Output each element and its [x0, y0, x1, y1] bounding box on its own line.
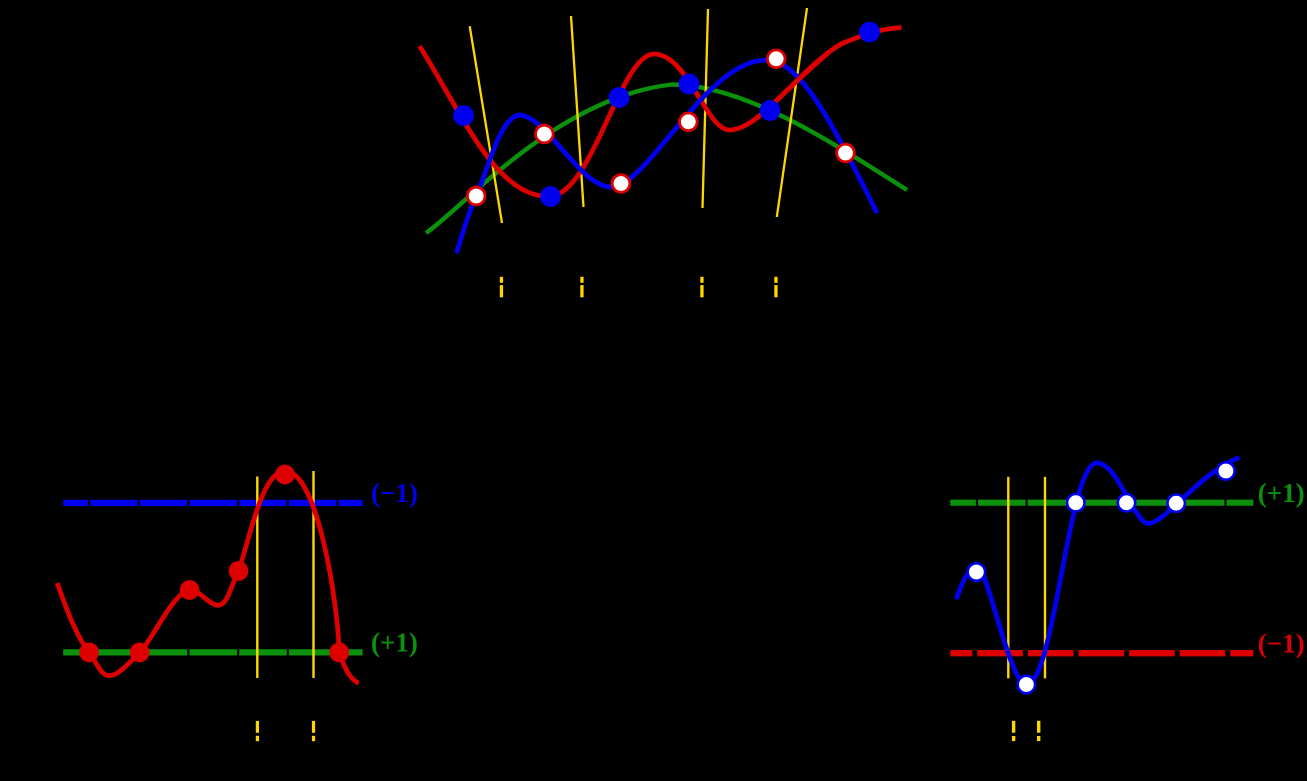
svg-text:(−1): (−1)	[1258, 629, 1305, 659]
red curve (bottom left)	[57, 471, 358, 683]
yellow vertical line 1 (bottom left)	[256, 477, 258, 679]
green dashed horizontal line (+1 level)	[950, 500, 1253, 506]
svg-text:(+1): (+1)	[1258, 478, 1305, 508]
red dashed horizontal line (-1 level)	[950, 650, 1253, 656]
yellow slanted line 2 (top)	[571, 16, 584, 207]
svg-text:(+1): (+1)	[371, 628, 418, 658]
yellow slanted line 3 (top)	[703, 9, 709, 208]
white dots with red rings on blue curve (top)	[467, 50, 854, 205]
yellow dashed tick marks below bottom-left plot	[256, 721, 315, 741]
green curve (top)	[426, 85, 907, 234]
red dots (bottom left)	[79, 465, 349, 663]
red curve overlay segment over blue (top right crossing)	[776, 53, 828, 102]
yellow dashed tick marks below bottom-right plot	[1012, 721, 1041, 741]
yellow vertical line 1 (bottom right)	[1007, 477, 1009, 679]
yellow slanted line 4 (top)	[777, 8, 807, 217]
yellow vertical line 2 (bottom right)	[1044, 477, 1046, 679]
blue dots on red curve (top)	[453, 22, 880, 207]
yellow vertical line 2 (bottom left)	[312, 471, 314, 678]
blue dashed horizontal line (-1 level)	[63, 500, 362, 506]
yellow dashed tick marks below top plot	[500, 277, 778, 298]
yellow slanted line 1 (top)	[470, 26, 502, 223]
red curve (top)	[420, 28, 902, 197]
white dots with blue rings (bottom right)	[968, 462, 1235, 693]
blue curve (top)	[457, 60, 878, 253]
blue curve (bottom right)	[956, 458, 1239, 685]
green dashed horizontal line (+1 level)	[63, 649, 362, 655]
svg-text:(−1): (−1)	[371, 478, 418, 508]
